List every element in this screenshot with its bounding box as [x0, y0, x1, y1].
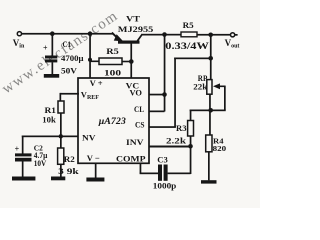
wire base column to VC	[130, 62, 132, 79]
wire CS branch horizontal	[174, 58, 211, 60]
wire wiper return	[190, 86, 226, 111]
wire Vout node down	[210, 35, 212, 80]
svg-text:C1: C1	[63, 40, 72, 49]
wire R5b left lead	[90, 61, 99, 63]
node junction base column	[129, 59, 134, 64]
wire VREF left	[60, 93, 79, 95]
node junction V+	[88, 31, 93, 36]
svg-text:50V: 50V	[61, 65, 78, 75]
wire R4 to ground	[208, 152, 210, 181]
wire NV rail	[22, 136, 79, 138]
svg-text:VREF: VREF	[81, 90, 99, 102]
node junction VO	[162, 92, 167, 97]
wire R3 top	[190, 110, 192, 121]
label C2 values	[34, 143, 48, 168]
svg-text:VO: VO	[130, 88, 143, 98]
svg-text:μA723: μA723	[98, 116, 127, 126]
ground (V-)	[86, 178, 104, 182]
wire C1 down	[52, 34, 54, 56]
wire V+ down to IC	[89, 34, 91, 78]
label R4 820	[213, 136, 227, 153]
watermark	[0, 8, 121, 98]
svg-text:R3: R3	[176, 124, 187, 133]
capacitor C2	[15, 145, 32, 162]
wire V- to ground	[95, 163, 97, 178]
capacitor C1	[43, 44, 57, 75]
svg-text:C3: C3	[157, 156, 168, 165]
node Vout terminal	[225, 33, 240, 50]
label C1 value	[61, 40, 84, 76]
svg-text:+: +	[15, 145, 20, 154]
resistor R5 0.33	[181, 32, 197, 37]
node junction divider	[208, 108, 213, 113]
wire VO/CL column down	[164, 35, 166, 112]
svg-text:CS: CS	[135, 119, 145, 129]
svg-text:2.2k: 2.2k	[166, 135, 186, 145]
resistor R4	[206, 135, 212, 152]
node junction VO/CL column top	[162, 32, 167, 37]
svg-text:4700μ: 4700μ	[61, 53, 84, 63]
svg-text:+: +	[43, 44, 48, 53]
label RP 22k	[193, 74, 208, 92]
svg-text:820: 820	[213, 144, 227, 153]
transistor Q1 MJ2955	[113, 33, 142, 61]
svg-text:V −: V −	[87, 153, 100, 163]
wire main top rail left	[22, 33, 114, 35]
capacitor C3	[158, 165, 168, 181]
resistor R1	[58, 101, 64, 113]
svg-text:1000p: 1000p	[153, 180, 177, 190]
resistor R5 100ohm	[99, 58, 122, 65]
label R1 10k	[42, 106, 56, 125]
svg-text:CL: CL	[134, 104, 144, 114]
wire RP bottom to R4	[209, 94, 211, 135]
svg-text:INV: INV	[126, 137, 144, 147]
resistor R3	[188, 121, 194, 137]
potentiometer RP	[207, 80, 225, 95]
wire main top rail right	[142, 34, 182, 36]
ground (R2)	[51, 177, 65, 181]
op-amp U1 uA723 box	[78, 78, 149, 163]
wire C3 right lead	[168, 173, 191, 175]
svg-text:NV: NV	[82, 132, 96, 142]
svg-text:Vout: Vout	[225, 38, 240, 50]
svg-text:10k: 10k	[42, 115, 56, 124]
wire R5 to Vout	[197, 34, 230, 36]
node Vin terminal	[13, 32, 25, 50]
svg-text:22k: 22k	[193, 83, 208, 92]
wire VREF down to R1	[60, 93, 62, 102]
ground (R4)	[201, 180, 217, 183]
wire CL pin	[149, 111, 165, 113]
wire VO pin	[149, 94, 165, 96]
node junction R1/R2	[59, 134, 63, 138]
svg-text:VT: VT	[126, 14, 140, 24]
wire R3 bottom / INV column	[190, 136, 192, 174]
wire C2 to ground	[22, 162, 24, 177]
svg-text:0.33/4W: 0.33/4W	[165, 41, 209, 51]
resistor R2	[58, 148, 64, 164]
ground (C2)	[12, 177, 35, 181]
svg-text:V +: V +	[90, 79, 103, 88]
wire R5b right lead	[122, 61, 132, 63]
svg-text:R1: R1	[45, 106, 57, 115]
wire C3 left lead	[140, 173, 158, 175]
wire R2 to ground	[60, 164, 62, 176]
wire R1 bottom	[60, 113, 62, 137]
wire INV pin	[149, 146, 191, 148]
svg-text:10V: 10V	[34, 159, 47, 168]
svg-text:Vin: Vin	[13, 38, 25, 50]
node junction R5 right	[208, 33, 213, 38]
svg-text:100: 100	[104, 68, 121, 78]
label R3 2.2k	[166, 124, 187, 146]
ground (C1)	[44, 74, 59, 78]
node junction R5b left	[88, 58, 92, 62]
svg-text:R5: R5	[106, 47, 119, 56]
node junction CS branch	[208, 56, 213, 61]
label R5 (100)	[104, 47, 121, 78]
svg-text:MJ2955: MJ2955	[118, 24, 154, 34]
wire NV rail down to C2	[22, 136, 24, 154]
wire R2 top	[60, 136, 62, 148]
wire CS column down	[174, 58, 176, 128]
svg-text:COMP: COMP	[116, 154, 146, 164]
svg-text:R2: R2	[64, 155, 75, 164]
svg-text:R5: R5	[183, 21, 194, 30]
wire CS pin	[149, 126, 176, 128]
wire COMP down	[140, 163, 142, 174]
node junction C1 top	[50, 31, 55, 36]
node junction INV	[188, 144, 193, 149]
